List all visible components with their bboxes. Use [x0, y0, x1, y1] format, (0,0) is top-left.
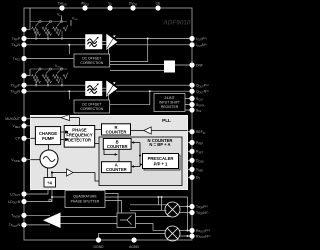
svg-text:COUNTER: COUNTER	[106, 130, 127, 135]
svg-text:REGISTER: REGISTER	[161, 105, 179, 109]
svg-text:CORRECTION: CORRECTION	[80, 61, 103, 65]
svg-text:CORRECTION: CORRECTION	[80, 107, 103, 111]
svg-text:QUADRATURE: QUADRATURE	[73, 195, 97, 199]
svg-text:24-BIT: 24-BIT	[164, 96, 174, 100]
svg-text:DGND: DGND	[94, 245, 105, 249]
svg-text:CP: CP	[15, 137, 20, 141]
svg-text:INPUT SHIFT: INPUT SHIFT	[159, 101, 180, 105]
svg-text:AGND: AGND	[129, 245, 139, 249]
svg-text:÷4: ÷4	[47, 181, 52, 186]
svg-text:DETECTOR: DETECTOR	[68, 138, 91, 143]
svg-text:ADF9010: ADF9010	[162, 19, 191, 26]
svg-text:PLL: PLL	[162, 118, 171, 123]
svg-text:PHASE SPLITTER: PHASE SPLITTER	[71, 200, 100, 204]
svg-text:N = BP + A: N = BP + A	[149, 142, 170, 147]
svg-text:COUNTER: COUNTER	[106, 167, 127, 172]
svg-text:CHARGE: CHARGE	[39, 131, 57, 136]
svg-text:DNF: DNF	[196, 63, 203, 67]
svg-text:MUXOUT: MUXOUT	[5, 117, 20, 121]
svg-text:PUMP: PUMP	[42, 136, 54, 141]
svg-text:CE: CE	[156, 2, 161, 6]
svg-text:COUNTER: COUNTER	[107, 144, 128, 149]
svg-text:DC OFFSET: DC OFFSET	[82, 102, 101, 106]
svg-text:P/P + 1: P/P + 1	[154, 161, 168, 166]
svg-text:DC OFFSET: DC OFFSET	[82, 56, 101, 60]
svg-text:PRESCALER: PRESCALER	[148, 156, 174, 161]
